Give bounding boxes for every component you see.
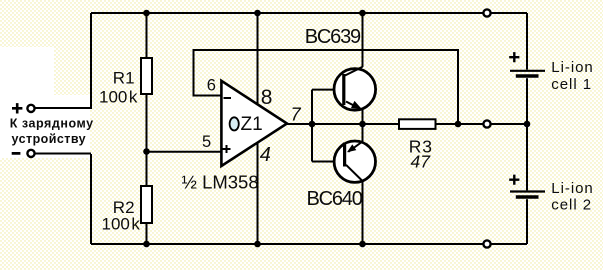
svg-text:R1: R1 [113, 68, 135, 87]
svg-text:cell 2: cell 2 [551, 197, 592, 214]
svg-text:100k: 100k [99, 87, 138, 106]
svg-text:BC639: BC639 [305, 26, 361, 48]
svg-text:cell 1: cell 1 [551, 76, 592, 93]
svg-text:Z1: Z1 [241, 114, 263, 135]
svg-text:8: 8 [261, 86, 273, 109]
svg-text:К зарядному: К зарядному [10, 116, 94, 130]
svg-text:7: 7 [291, 105, 302, 125]
svg-text:5: 5 [202, 133, 211, 151]
svg-text:Li-ion: Li-ion [551, 59, 593, 76]
svg-text:Li-ion: Li-ion [551, 180, 593, 197]
svg-text:устройству: устройству [12, 132, 87, 146]
svg-text:4: 4 [260, 144, 271, 166]
svg-text:100k: 100k [102, 214, 141, 233]
svg-text:47: 47 [411, 152, 432, 172]
svg-text:6: 6 [207, 77, 216, 95]
svg-text:BC640: BC640 [307, 188, 363, 210]
svg-text:½ LM358: ½ LM358 [182, 171, 259, 192]
